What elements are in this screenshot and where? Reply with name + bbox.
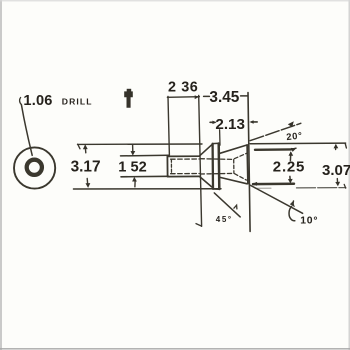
wire foot at bottom of middle extension — [196, 224, 201, 226]
head taper bottom slant — [199, 176, 211, 187]
svg-text:1 52: 1 52 — [118, 159, 146, 175]
svg-text:DRILL: DRILL — [62, 96, 93, 106]
wire tick end of bottom right line — [344, 184, 346, 188]
dimension 3.17 bottom arrow — [86, 179, 89, 186]
wire extension line 3.45/2.13 right — [248, 93, 250, 232]
svg-text:2 36: 2 36 — [168, 79, 198, 95]
wire extension line 2.13 left — [219, 130, 221, 145]
dimension 1.52 bottom arrowhead — [132, 177, 137, 182]
arrowhead right end of 2.36 dim — [195, 95, 199, 99]
dimension 3.17 top arrowhead — [83, 144, 88, 149]
wire bottom surface line left — [74, 188, 222, 190]
dimension dash 2.13 left — [210, 121, 215, 123]
ink mark T shape — [124, 91, 133, 107]
cone right edge — [246, 145, 249, 184]
dimension 1.52 top arrow stem — [132, 145, 134, 152]
rivet shank left end cap — [166, 156, 168, 176]
svg-text:3.45: 3.45 — [209, 89, 239, 106]
dimension 3.17 bottom arrowhead — [86, 183, 91, 188]
arrowheads — [83, 89, 340, 208]
cone bottom slant — [221, 178, 248, 184]
rivet shank top — [167, 155, 199, 157]
dimension 3.07 down arrowhead — [335, 182, 340, 187]
svg-text:2.13: 2.13 — [215, 116, 245, 133]
flange band top cap — [212, 142, 219, 144]
svg-text:1.06: 1.06 — [23, 93, 52, 109]
dimension dash 2.13 right — [252, 121, 257, 123]
flange band left edge — [211, 144, 214, 189]
wire tick end of top right line — [345, 143, 346, 148]
dimension 2.25 down arrow stem — [289, 176, 291, 181]
svg-text:10°: 10° — [300, 215, 318, 226]
dimension 3.07 up arrowhead — [334, 144, 339, 149]
svg-text:45°: 45° — [216, 215, 233, 224]
wire top surface line left — [78, 143, 203, 145]
wire bottom reference line right — [255, 187, 271, 189]
dimension 3.07 up arrow stem — [335, 145, 337, 149]
dimension line 3.45 right segment — [241, 95, 248, 97]
wire extension line left of 2.36 — [168, 97, 169, 156]
wire top reference line right — [250, 142, 345, 145]
arrowhead on 10 degree line — [290, 201, 295, 207]
dimension 2.13 right arrowhead — [249, 120, 253, 124]
hidden hole dashed top in head — [200, 158, 233, 161]
svg-text:20°: 20° — [286, 129, 304, 142]
wire 2.25 bottom extension bold — [253, 182, 294, 185]
wire hook at left end of top line — [78, 144, 80, 149]
dimension 3.07 down arrow stem — [336, 179, 338, 185]
cone top slant — [220, 145, 247, 153]
dimension 2.13 left arrowhead — [212, 121, 216, 125]
hidden hole dashed inner cap — [233, 160, 235, 174]
rivet shank bottom — [168, 175, 200, 177]
wire 2.25 top extension bold — [255, 148, 291, 151]
wire 1.52 extension top — [121, 154, 169, 157]
dimension line 3.45 left segment — [204, 95, 210, 97]
wire 45 degree leader — [214, 193, 240, 217]
wire tick on 10 degree line — [292, 201, 295, 205]
arrowhead of 20 degree line — [288, 121, 294, 127]
svg-text:3.17: 3.17 — [71, 159, 101, 176]
wire 20 degree angle line — [250, 123, 300, 140]
node end-view hole ring — [27, 160, 42, 175]
dimension 1.52 bottom arrow stem — [134, 181, 136, 186]
svg-text:2.25: 2.25 — [273, 159, 305, 176]
hidden hole dashed top in shank — [171, 158, 199, 160]
dimension 2.25 up arrow stem — [289, 153, 291, 161]
wire arc at end of 10 degree line — [289, 207, 295, 221]
dimension 3.17 top arrow — [84, 146, 87, 153]
hidden hole dashed bottom in shank — [171, 173, 200, 175]
hidden hole dashed left cap — [170, 159, 172, 173]
head taper top slant — [199, 145, 212, 156]
arrowhead left end 2.25 bottom extension — [252, 182, 257, 186]
dimension 1.52 top arrowhead — [131, 151, 136, 156]
flange band right edge — [217, 144, 220, 190]
dimension line 2.36 — [167, 96, 199, 99]
wire tick on 45 degree leader — [234, 205, 237, 209]
wire arrow at end of 2.25 top extension — [291, 148, 296, 149]
node end-view outer circle — [14, 147, 55, 188]
wire 10 degree angle line — [250, 185, 302, 213]
svg-text:3.07: 3.07 — [322, 162, 350, 179]
wire extension line 2.36 right / 3.45 left — [199, 96, 202, 227]
wire leader hook of 1.06 — [20, 98, 22, 105]
arrowhead end 2.25 top extension — [291, 148, 296, 152]
hidden hole dashed bottom in head — [200, 172, 233, 175]
flange band bottom cap — [213, 188, 220, 190]
dimension 2.25 down arrowhead — [288, 179, 293, 184]
wire leader 1.06 to hole — [21, 105, 32, 156]
wire 1.52 extension bottom — [121, 175, 169, 178]
dimension 2.25 up arrowhead — [289, 151, 294, 156]
hidden flare dashed bottom — [234, 174, 246, 181]
hidden flare dashed top — [234, 153, 246, 158]
